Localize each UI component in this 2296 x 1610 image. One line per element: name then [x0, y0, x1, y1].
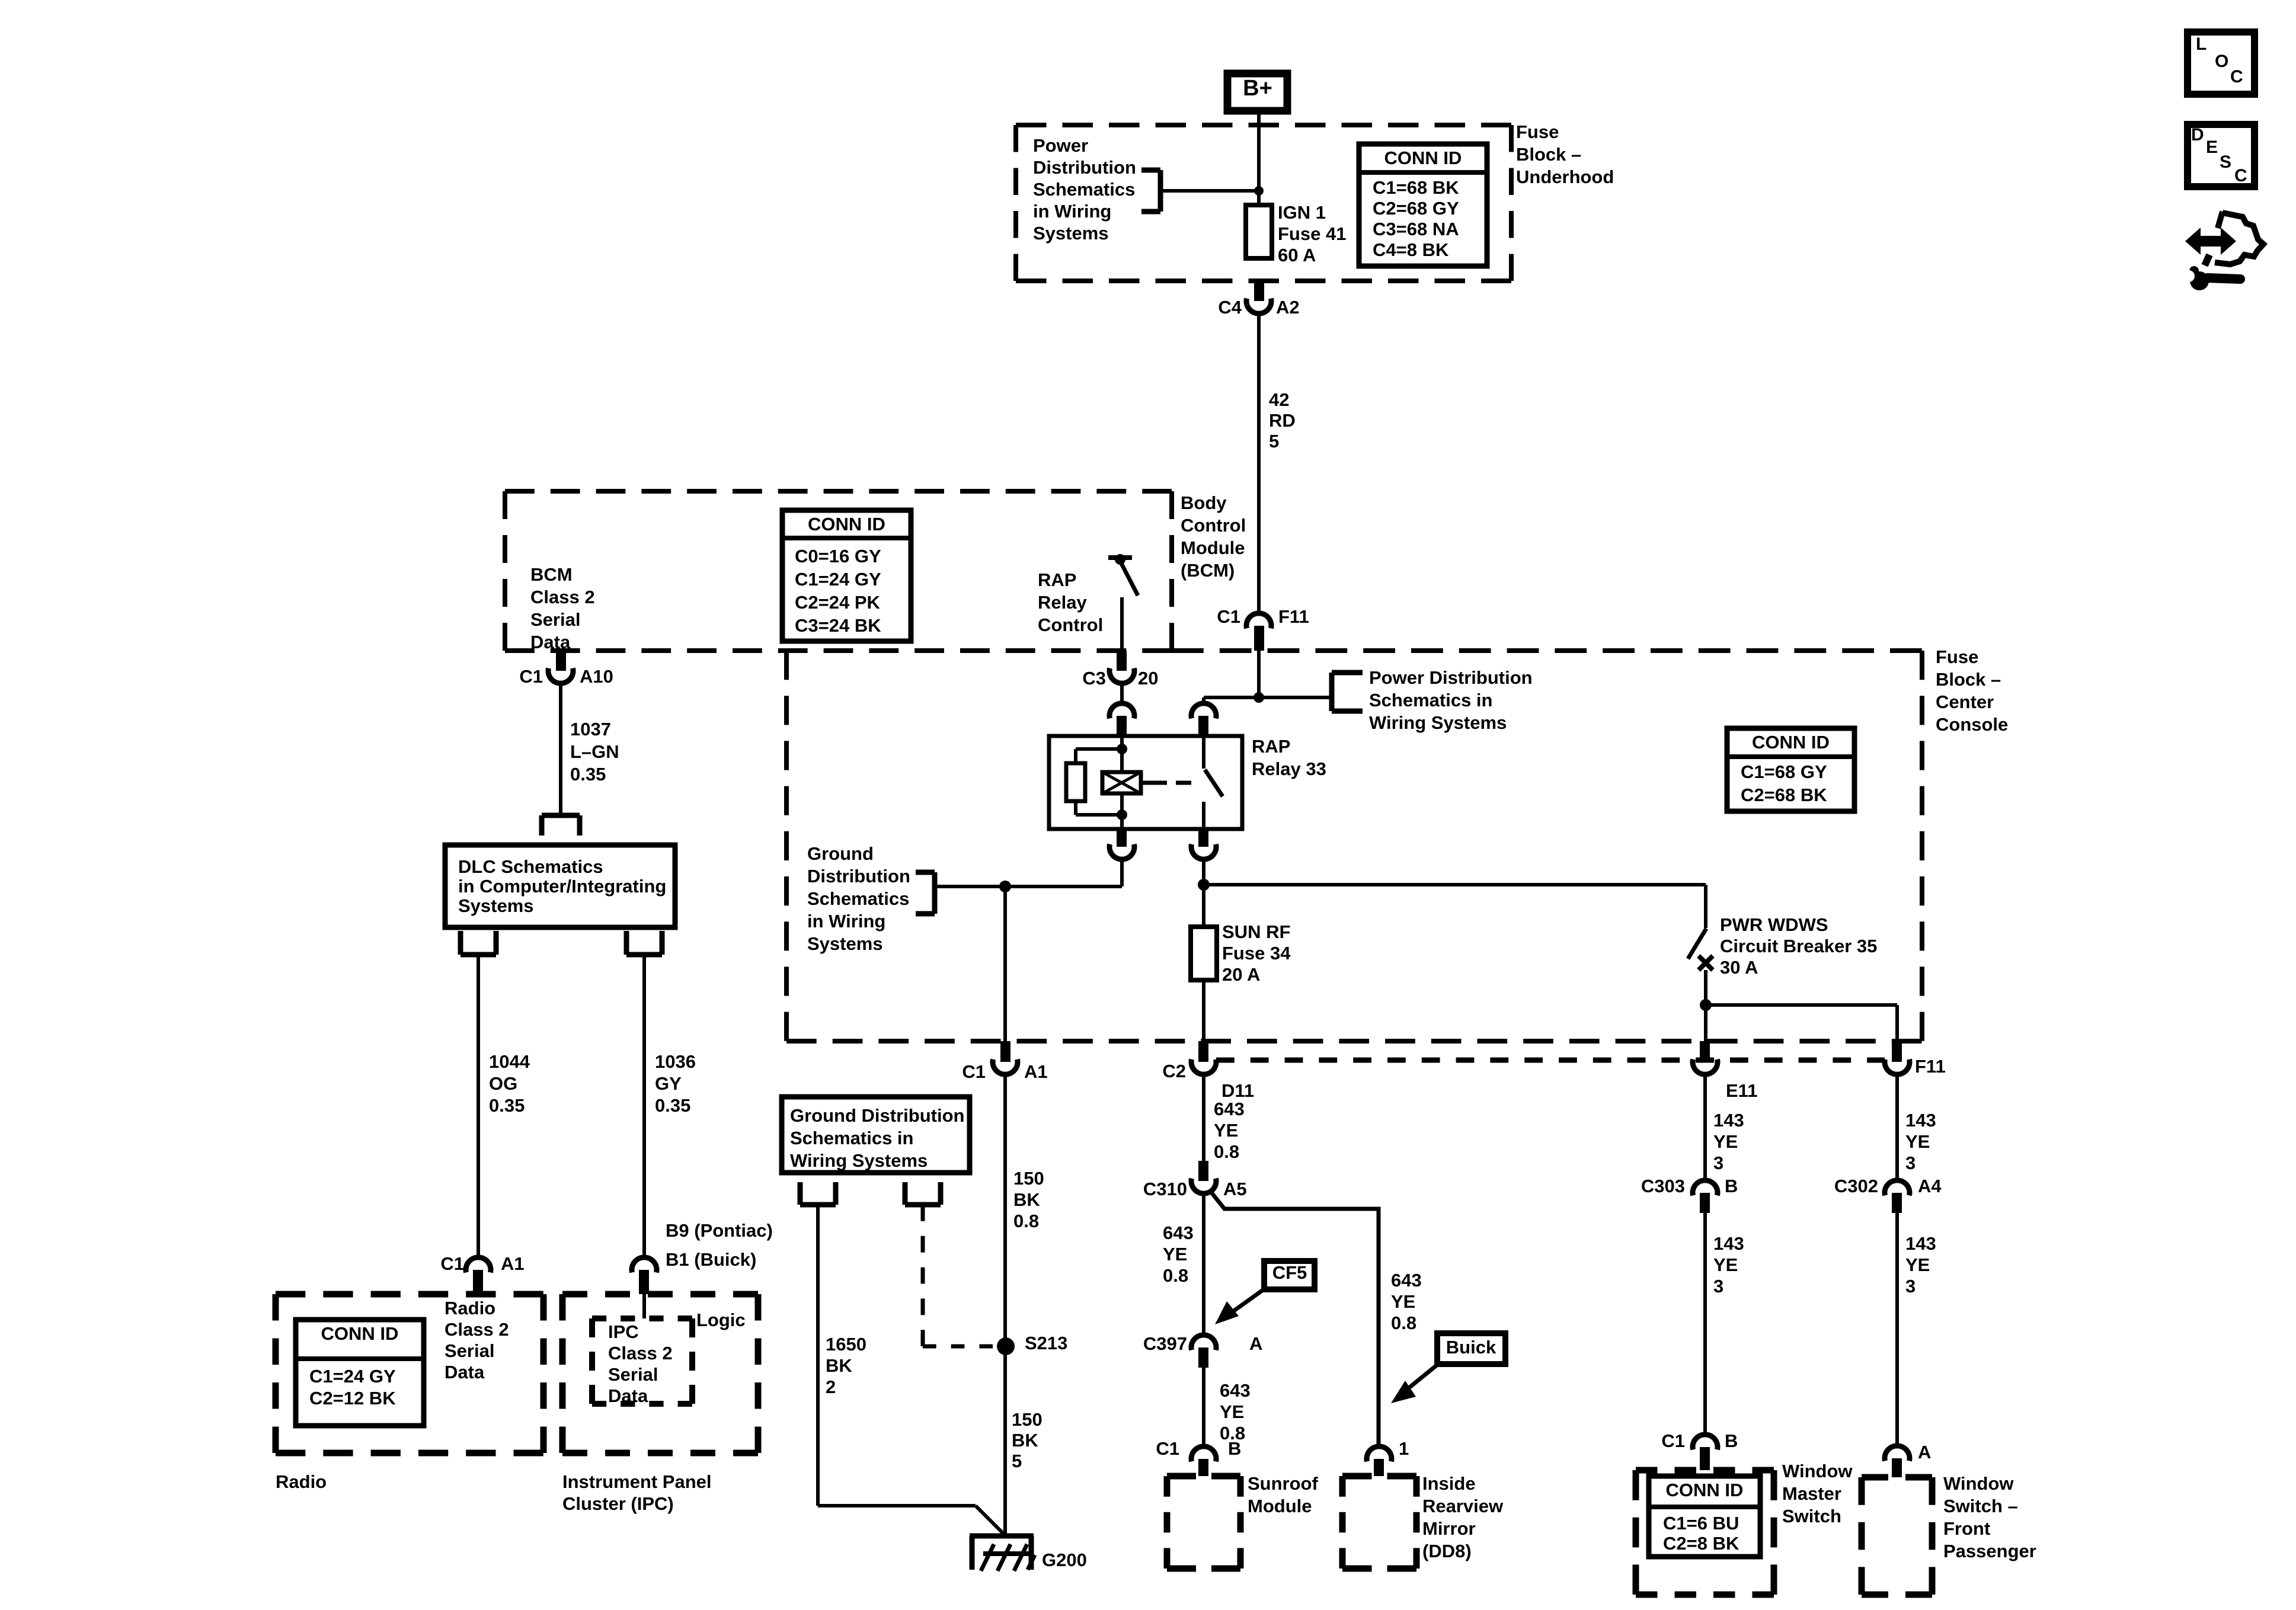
svg-text:Radio: Radio: [445, 1298, 495, 1318]
svg-text:RD: RD: [1269, 410, 1296, 431]
module box BCM dashed: [505, 491, 1172, 651]
label wire 42 RD 5: [1269, 389, 1296, 452]
reference box DLC Schematics: [445, 845, 675, 927]
label Instrument Panel Cluster (IPC): [562, 1471, 712, 1514]
svg-text:YE: YE: [1905, 1254, 1930, 1275]
label C2: [1162, 1061, 1186, 1081]
terminal bracket ground box right: [905, 1182, 941, 1205]
connector A window switch pin: [1892, 1458, 1902, 1477]
wire B+ to IGN1 fuse: [1257, 114, 1261, 205]
label Sunroof Module: [1248, 1473, 1318, 1516]
svg-text:C1=24 GY: C1=24 GY: [309, 1366, 396, 1387]
wire E11 to C303: [1703, 1074, 1707, 1180]
splice S213: [997, 1337, 1015, 1355]
svg-text:Window: Window: [1782, 1461, 1853, 1481]
relay actuation dashed link: [1141, 781, 1199, 785]
svg-text:A5: A5: [1223, 1179, 1247, 1199]
svg-text:B1 (Buick): B1 (Buick): [666, 1249, 756, 1270]
wire ground bus horizontal: [935, 885, 1122, 888]
svg-text:20 A: 20 A: [1222, 964, 1260, 985]
svg-text:Serial: Serial: [445, 1340, 494, 1361]
label wire 643 YE 0.8 (4): [1391, 1270, 1422, 1333]
svg-text:C1=6 BU: C1=6 BU: [1663, 1513, 1739, 1534]
relay coil feed wire: [1120, 736, 1124, 772]
svg-text:Wiring Systems: Wiring Systems: [790, 1150, 928, 1171]
module box Inside Rearview Mirror dashed: [1342, 1476, 1416, 1569]
wire C302 to window switch: [1895, 1213, 1899, 1446]
label wire 643 YE 0.8 (1): [1214, 1099, 1245, 1162]
label C1 (sunroof): [1156, 1438, 1179, 1459]
conn id table window master switch: [1649, 1476, 1760, 1557]
connector C397-A cup: [1191, 1335, 1216, 1350]
label A2: [1276, 297, 1300, 318]
connector C1-A1 radio cup: [466, 1257, 491, 1273]
svg-text:60 A: 60 A: [1278, 245, 1316, 265]
connector A window switch cup: [1885, 1446, 1910, 1461]
svg-text:C397: C397: [1143, 1333, 1187, 1354]
svg-text:C2=68 GY: C2=68 GY: [1373, 198, 1459, 219]
connector C1-A1 radio pin: [473, 1270, 483, 1294]
label C310: [1143, 1179, 1187, 1199]
svg-text:GY: GY: [655, 1073, 682, 1094]
wire junction to relay switch pin: [1204, 697, 1259, 705]
svg-text:Ground Distribution: Ground Distribution: [790, 1105, 964, 1126]
connector row dashed link C2: [1216, 1058, 1885, 1063]
svg-text:BK: BK: [1013, 1189, 1040, 1210]
svg-text:Front: Front: [1943, 1518, 1990, 1539]
svg-text:C303: C303: [1641, 1176, 1685, 1196]
connector C1-F11 cup: [1246, 613, 1271, 629]
svg-text:RAP: RAP: [1252, 736, 1290, 757]
bracket to power distribution schematics: [1141, 170, 1160, 212]
wire C1-A1 to S213: [1003, 1074, 1007, 1346]
relay internal junction bottom: [1117, 809, 1127, 820]
svg-text:Fuse: Fuse: [1516, 121, 1559, 142]
label wire 143 YE 3 (4): [1905, 1233, 1936, 1297]
svg-text:42: 42: [1269, 389, 1289, 410]
terminal bracket DLC to IPC: [626, 931, 662, 955]
wire C3 to relay coil pin: [1120, 683, 1124, 705]
tag CF5 callout: [1215, 1261, 1315, 1324]
connector C1-B sunroof pin: [1198, 1459, 1208, 1476]
label Radio: [276, 1471, 327, 1492]
svg-text:0.8: 0.8: [1214, 1141, 1239, 1162]
svg-text:C1: C1: [1217, 606, 1240, 627]
connector C2-E11 pin: [1700, 1041, 1710, 1062]
terminal bracket DLC to radio: [461, 931, 496, 955]
svg-text:Data: Data: [445, 1362, 485, 1382]
svg-text:YE: YE: [1214, 1120, 1238, 1141]
fuse F34 SUN RF 20A feed wire: [1202, 885, 1205, 927]
wire C303 to master switch: [1703, 1213, 1707, 1435]
svg-text:C2: C2: [1162, 1061, 1186, 1081]
svg-text:Instrument Panel: Instrument Panel: [562, 1471, 712, 1492]
connector C4-A2 cup: [1246, 299, 1271, 314]
label C4: [1218, 297, 1242, 318]
wire switched feed to breaker: [1204, 885, 1706, 928]
svg-text:SUN RF: SUN RF: [1222, 921, 1290, 942]
relay switch contacts: [1204, 736, 1223, 829]
label wire 1036 GY 0.35: [655, 1051, 696, 1116]
svg-text:Relay 33: Relay 33: [1252, 758, 1326, 779]
svg-text:BK: BK: [826, 1355, 852, 1376]
svg-text:Module: Module: [1181, 537, 1245, 558]
label wire 150 BK 0.8: [1013, 1168, 1044, 1231]
svg-text:643: 643: [1391, 1270, 1422, 1291]
wire fuse 34 to C2-D11: [1202, 980, 1205, 1041]
svg-text:C2=8 BK: C2=8 BK: [1663, 1533, 1739, 1554]
svg-text:A4: A4: [1918, 1176, 1942, 1196]
svg-text:5: 5: [1012, 1451, 1022, 1471]
label A1 (radio): [501, 1253, 525, 1274]
svg-text:CONN ID: CONN ID: [808, 514, 885, 534]
connector C1-B sunroof cup: [1191, 1446, 1216, 1462]
svg-text:CF5: CF5: [1272, 1262, 1307, 1283]
wire DLC to radio C1-A1: [477, 955, 480, 1257]
connector C1-A1 cup: [993, 1060, 1018, 1075]
relay bottom coil pin: [1109, 829, 1134, 859]
svg-text:C1: C1: [519, 666, 543, 687]
svg-text:1036: 1036: [655, 1051, 696, 1072]
wire ground bus to C1-A1: [1003, 886, 1007, 1041]
wire bracket to B+ node: [1160, 189, 1259, 193]
svg-text:C1: C1: [1661, 1430, 1685, 1451]
svg-text:0.8: 0.8: [1391, 1313, 1416, 1333]
svg-text:F11: F11: [1278, 606, 1309, 627]
svg-text:(DD8): (DD8): [1422, 1541, 1472, 1561]
relay suppression resistor branch: [1066, 749, 1122, 815]
label B (sunroof): [1228, 1438, 1241, 1459]
svg-text:Fuse: Fuse: [1936, 646, 1978, 667]
connector B9-B1 IPC pin: [639, 1270, 649, 1294]
label B (C303): [1725, 1176, 1738, 1196]
svg-text:C3: C3: [1082, 668, 1106, 689]
svg-text:YE: YE: [1713, 1131, 1738, 1152]
svg-text:(BCM): (BCM): [1181, 560, 1235, 581]
label A (window switch): [1918, 1442, 1931, 1462]
svg-text:C: C: [2230, 67, 2243, 87]
svg-text:3: 3: [1713, 1153, 1723, 1173]
svg-text:C1: C1: [440, 1253, 464, 1274]
svg-text:A: A: [1249, 1333, 1262, 1354]
svg-text:Mirror: Mirror: [1422, 1518, 1476, 1539]
label Body Control Module (BCM): [1181, 492, 1246, 581]
label Ground Distribution Schematics in Wiring Systems (bracket): [807, 843, 910, 954]
label C397: [1143, 1333, 1187, 1354]
svg-text:1650: 1650: [826, 1334, 866, 1355]
svg-text:Fuse 41: Fuse 41: [1278, 223, 1346, 244]
svg-text:C302: C302: [1834, 1176, 1878, 1196]
wire DLC to IPC B9-B1: [642, 955, 646, 1257]
fuse F41 IGN 1 60A: [1246, 205, 1272, 258]
svg-text:RAP: RAP: [1038, 569, 1076, 590]
svg-text:Power Distribution: Power Distribution: [1369, 667, 1533, 688]
svg-text:0.8: 0.8: [1163, 1265, 1188, 1286]
svg-text:Master: Master: [1782, 1483, 1841, 1504]
wire C2-D11 to C310: [1202, 1074, 1205, 1161]
connector C2-D11 cup: [1191, 1060, 1216, 1075]
svg-text:S: S: [2220, 152, 2231, 172]
svg-text:Schematics in: Schematics in: [790, 1128, 913, 1148]
node B+ battery terminal: [1227, 73, 1287, 111]
svg-text:643: 643: [1214, 1099, 1245, 1119]
connector C1-A1 pin: [1000, 1041, 1011, 1062]
label DLC Schematics in Computer/Integrating Systems: [458, 856, 666, 916]
connector C1-A10 cup: [548, 668, 573, 684]
label wire 150 BK 5: [1012, 1409, 1043, 1471]
svg-text:D: D: [2191, 125, 2204, 145]
label E11: [1726, 1080, 1757, 1101]
logic box IPC dashed: [592, 1318, 692, 1404]
svg-text:G200: G200: [1042, 1550, 1087, 1570]
junction dot power feed: [1253, 692, 1264, 703]
svg-text:YE: YE: [1391, 1291, 1415, 1312]
connector C1-B master cup: [1693, 1435, 1718, 1450]
label C3: [1082, 668, 1106, 689]
label A1: [1024, 1061, 1048, 1082]
svg-text:Class 2: Class 2: [445, 1319, 509, 1340]
svg-text:IGN 1: IGN 1: [1278, 202, 1326, 223]
module box Window Master Switch dashed: [1636, 1470, 1774, 1595]
bracket power distribution schematics (console): [1332, 673, 1363, 711]
svg-text:DLC Schematics: DLC Schematics: [458, 856, 603, 877]
label A4: [1918, 1176, 1942, 1196]
svg-text:1037: 1037: [570, 719, 611, 740]
label Fuse Block - Underhood: [1516, 121, 1614, 187]
svg-text:A10: A10: [580, 666, 613, 687]
label Window Switch - Front Passenger: [1943, 1473, 2036, 1561]
svg-text:F11: F11: [1915, 1056, 1946, 1077]
relay RAP Relay 33 switch-side top pin: [1191, 703, 1216, 736]
svg-text:Block –: Block –: [1516, 144, 1581, 165]
wire B9 pin into IPC logic: [642, 1294, 646, 1318]
label RAP Relay Control: [1038, 569, 1103, 635]
connector C2-E11 cup: [1693, 1060, 1718, 1075]
svg-text:Serial: Serial: [530, 609, 580, 630]
connector 1 mirror cup: [1367, 1446, 1392, 1462]
svg-text:C4: C4: [1218, 297, 1242, 318]
label wire 143 YE 3 (1): [1713, 1110, 1744, 1173]
svg-text:0.35: 0.35: [570, 764, 606, 785]
wire ground box left to G200: [818, 1205, 1006, 1536]
connector C1-B master pin: [1700, 1447, 1710, 1470]
svg-text:YE: YE: [1163, 1244, 1187, 1265]
conn id table center console: [1727, 728, 1854, 811]
svg-text:Ground: Ground: [807, 843, 874, 864]
svg-text:Control: Control: [1181, 515, 1246, 536]
label wire 643 YE 0.8 (3): [1220, 1380, 1251, 1443]
wire C310 branch to mirror: [1210, 1191, 1379, 1446]
svg-text:C1=68 BK: C1=68 BK: [1373, 177, 1459, 198]
label IPC Class 2 Serial Data: [608, 1321, 673, 1406]
label F11 (BCM): [1278, 606, 1309, 627]
svg-text:CONN ID: CONN ID: [1752, 732, 1830, 753]
svg-text:B: B: [1228, 1438, 1241, 1459]
label wire 1044 OG 0.35: [489, 1051, 530, 1116]
svg-text:20: 20: [1138, 668, 1158, 689]
legend box LOC: [2188, 32, 2255, 94]
label Power Distribution Schematics in Wiring Systems (console): [1369, 667, 1533, 733]
connector C2-F11 pin: [1892, 1041, 1902, 1062]
svg-text:BK: BK: [1012, 1430, 1038, 1451]
conn id table radio: [296, 1320, 424, 1426]
relay RAP Relay 33 coil-side top pin: [1109, 703, 1134, 736]
svg-text:O: O: [2215, 52, 2228, 71]
wire S213 to G200: [1003, 1346, 1007, 1536]
svg-text:Class 2: Class 2: [530, 587, 595, 607]
svg-text:in Wiring: in Wiring: [807, 911, 885, 932]
label SUN RF Fuse 34 20 A: [1222, 921, 1291, 985]
svg-text:Fuse 34: Fuse 34: [1222, 943, 1291, 964]
label Fuse Block - Center Console: [1936, 646, 2008, 735]
label PWR WDWS Circuit Breaker 35 30 A: [1720, 914, 1877, 978]
wire 42 RD to BCM: [1257, 313, 1261, 613]
svg-text:Data: Data: [530, 632, 571, 652]
tag Buick callout: [1391, 1333, 1505, 1403]
svg-text:Buick: Buick: [1446, 1337, 1496, 1358]
ground G200: [970, 1536, 1035, 1571]
svg-text:Schematics: Schematics: [807, 888, 909, 909]
svg-text:143: 143: [1905, 1110, 1936, 1131]
svg-text:C1=24 GY: C1=24 GY: [795, 569, 881, 590]
svg-text:Window: Window: [1943, 1473, 2014, 1494]
svg-text:C: C: [2234, 166, 2247, 185]
label C1 (A1): [962, 1061, 986, 1082]
fuse block underhood dashed box: [1016, 125, 1511, 281]
conn id table BCM: [782, 510, 911, 641]
svg-text:Cluster (IPC): Cluster (IPC): [562, 1493, 674, 1514]
svg-text:Center: Center: [1936, 692, 1994, 712]
connector C2-D11 pin: [1198, 1041, 1208, 1062]
junction dot switched feed: [1198, 879, 1210, 891]
svg-text:Schematics in: Schematics in: [1369, 690, 1492, 710]
connector C302-A4 pin: [1892, 1193, 1902, 1213]
svg-text:143: 143: [1713, 1233, 1744, 1254]
wire dashed ground box right to S213: [923, 1205, 993, 1346]
label Ground Distribution Schematics in Wiring Systems (box): [790, 1105, 964, 1171]
svg-text:143: 143: [1713, 1110, 1744, 1131]
label A10: [580, 666, 613, 687]
svg-text:3: 3: [1713, 1276, 1723, 1297]
svg-text:in Computer/Integrating: in Computer/Integrating: [458, 876, 666, 897]
connector C310-A5 pin: [1198, 1161, 1208, 1181]
svg-text:Module: Module: [1248, 1496, 1312, 1516]
svg-text:Logic: Logic: [696, 1310, 746, 1330]
svg-text:CONN ID: CONN ID: [1384, 148, 1462, 168]
svg-text:Inside: Inside: [1422, 1473, 1476, 1494]
label wire 1650 BK 2: [826, 1334, 866, 1397]
svg-text:Control: Control: [1038, 614, 1103, 635]
svg-text:Passenger: Passenger: [1943, 1541, 2036, 1561]
label RAP Relay 33: [1252, 736, 1326, 779]
wire junction to power distribution bracket: [1259, 696, 1332, 699]
svg-text:C310: C310: [1143, 1179, 1187, 1199]
svg-text:S213: S213: [1025, 1333, 1067, 1353]
svg-text:Circuit Breaker 35: Circuit Breaker 35: [1720, 936, 1877, 956]
label Inside Rearview Mirror (DD8): [1422, 1473, 1504, 1561]
svg-text:YE: YE: [1905, 1131, 1930, 1152]
svg-text:Switch –: Switch –: [1943, 1496, 2018, 1516]
relay internal junction top: [1117, 744, 1127, 754]
bracket ground distribution schematics: [916, 872, 935, 914]
svg-text:B9 (Pontiac): B9 (Pontiac): [666, 1220, 773, 1241]
svg-text:Systems: Systems: [1033, 223, 1109, 244]
connector C397-A pin: [1198, 1347, 1208, 1368]
svg-text:150: 150: [1013, 1168, 1044, 1189]
svg-text:Systems: Systems: [807, 933, 883, 954]
relay RAP Relay 33 box: [1049, 736, 1242, 829]
svg-text:L: L: [2196, 34, 2207, 54]
svg-text:3: 3: [1905, 1153, 1916, 1173]
fuse block center console dashed box: [786, 651, 1922, 1041]
svg-text:Class 2: Class 2: [608, 1343, 673, 1363]
junction dot ground bus: [999, 881, 1011, 892]
label 20: [1138, 668, 1158, 689]
svg-text:Rearview: Rearview: [1422, 1496, 1504, 1516]
label B9 (Pontiac): [666, 1220, 773, 1241]
svg-text:A1: A1: [1024, 1061, 1048, 1082]
label B (master): [1725, 1430, 1738, 1451]
svg-text:Switch: Switch: [1782, 1506, 1841, 1526]
label BCM Class 2 Serial Data: [530, 564, 595, 652]
module box Instrument Panel Cluster dashed: [562, 1294, 758, 1453]
svg-text:1: 1: [1399, 1438, 1409, 1459]
label D11: [1221, 1080, 1254, 1101]
svg-text:Radio: Radio: [276, 1471, 327, 1492]
svg-text:2: 2: [826, 1377, 836, 1397]
wire relay coil pin down: [1120, 859, 1124, 886]
svg-text:C1: C1: [1156, 1438, 1179, 1459]
label C303: [1641, 1176, 1685, 1196]
svg-text:Wiring Systems: Wiring Systems: [1369, 712, 1507, 733]
label A5: [1223, 1179, 1247, 1199]
label F11 (console): [1915, 1056, 1946, 1077]
svg-text:B+: B+: [1243, 76, 1272, 101]
label C302: [1834, 1176, 1878, 1196]
label C1 (master): [1661, 1430, 1685, 1451]
label B1 (Buick): [666, 1249, 756, 1270]
svg-text:B: B: [1725, 1430, 1738, 1451]
svg-text:E11: E11: [1726, 1080, 1757, 1101]
svg-text:PWR WDWS: PWR WDWS: [1720, 914, 1828, 935]
svg-text:150: 150: [1012, 1409, 1043, 1430]
svg-text:C0=16 GY: C0=16 GY: [795, 546, 881, 566]
connector C3-20 pin: [1117, 651, 1127, 671]
module box Radio dashed: [276, 1294, 543, 1453]
wire F11 to C302: [1895, 1074, 1899, 1180]
svg-text:IPC: IPC: [608, 1321, 639, 1342]
svg-text:1044: 1044: [489, 1051, 530, 1072]
svg-text:in Wiring: in Wiring: [1033, 201, 1111, 222]
svg-text:30 A: 30 A: [1720, 957, 1758, 978]
svg-text:CONN ID: CONN ID: [321, 1323, 399, 1344]
connector C1-A10 pin: [556, 651, 566, 671]
svg-text:Systems: Systems: [458, 895, 534, 916]
svg-text:Relay: Relay: [1038, 592, 1087, 613]
label wire 143 YE 3 (2): [1713, 1233, 1744, 1297]
relay coil X-box: [1102, 772, 1141, 793]
label C1 (F11): [1217, 606, 1240, 627]
wire breaker output to F11: [1706, 1005, 1897, 1041]
svg-text:C3=24 BK: C3=24 BK: [795, 615, 881, 636]
svg-text:0.35: 0.35: [655, 1095, 690, 1116]
label Logic: [696, 1310, 746, 1330]
wire breaker output to E11: [1704, 1005, 1707, 1041]
connector C2-F11 cup: [1885, 1060, 1910, 1075]
connector C4-A2 pin: [1254, 281, 1264, 301]
svg-text:Underhood: Underhood: [1516, 167, 1614, 187]
wire relay switch pin down: [1202, 859, 1205, 885]
